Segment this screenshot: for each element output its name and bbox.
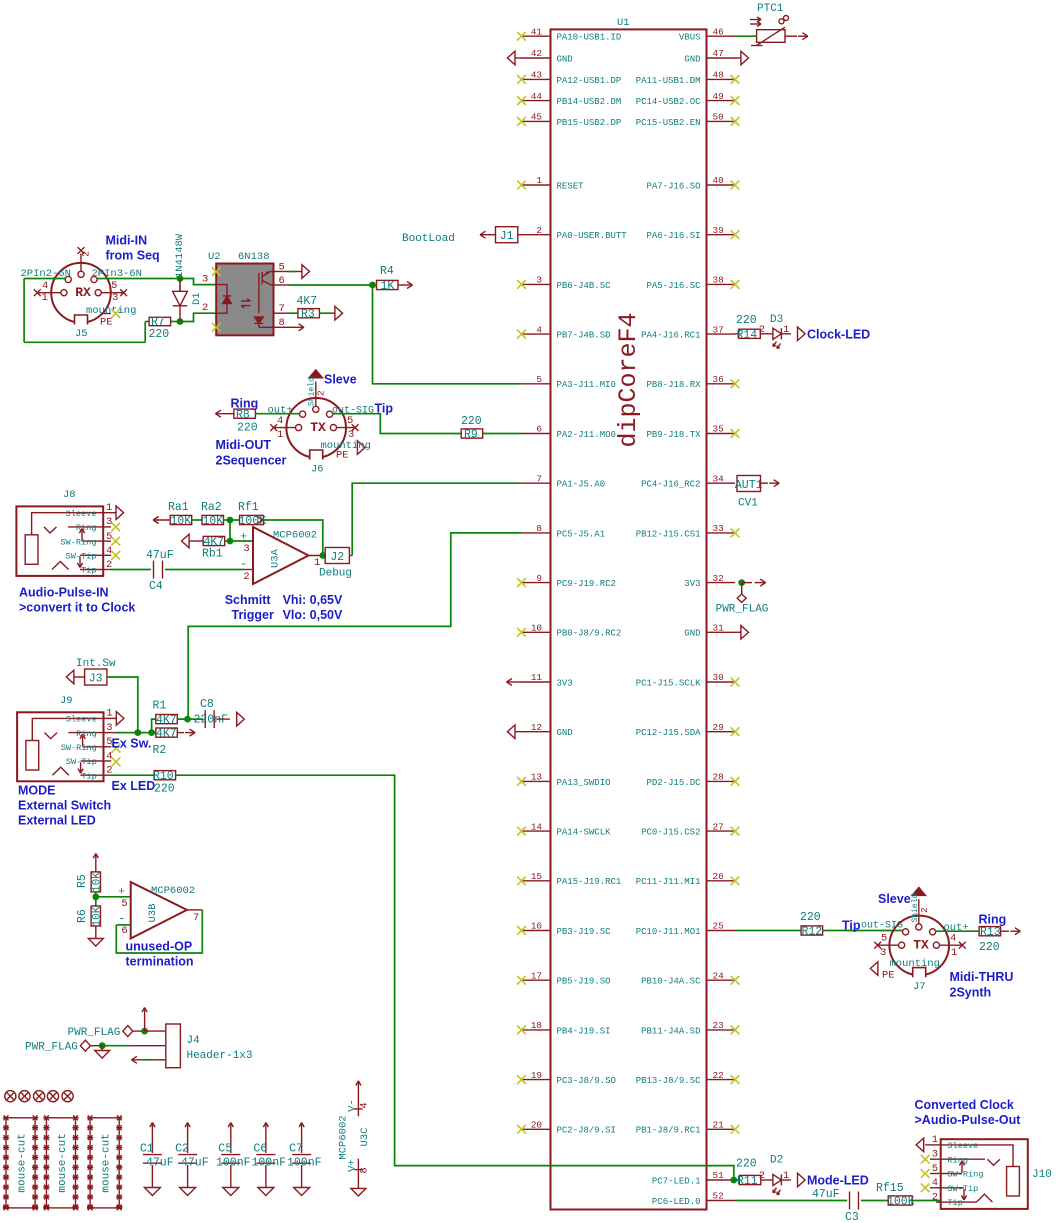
- svg-text:PC7-LED.1: PC7-LED.1: [652, 1176, 701, 1186]
- wire J1 to U1 pin2: [518, 234, 522, 236]
- svg-text:PWR_FLAG: PWR_FLAG: [68, 1027, 121, 1039]
- U1 pin 5 PA3-J11.MI0: [522, 383, 551, 385]
- ground below R6: [95, 926, 97, 939]
- svg-text:mounting: mounting: [890, 958, 940, 970]
- connector J8 jack Audio-Pulse-IN: [16, 506, 103, 576]
- svg-text:PA10-USB1.ID: PA10-USB1.ID: [557, 33, 622, 43]
- svg-text:Tip: Tip: [842, 919, 861, 933]
- junction U1 pin32 3V3: [738, 579, 745, 586]
- svg-text:dipCoreF4: dipCoreF4: [614, 312, 643, 447]
- resistor R4 1K: [377, 280, 399, 289]
- svg-text:20: 20: [531, 1120, 542, 1131]
- svg-text:Ra1: Ra1: [168, 501, 189, 514]
- U1 pin 4 PB7-J4B.SD: [522, 333, 551, 335]
- svg-text:GND: GND: [684, 629, 700, 639]
- svg-text:Ring: Ring: [76, 729, 97, 739]
- J9 pin 5: [104, 746, 112, 748]
- svg-text:Ra2: Ra2: [201, 501, 222, 514]
- svg-text:PC2-J8/9.SI: PC2-J8/9.SI: [557, 1126, 616, 1136]
- port arrow Mode-LED: [798, 1173, 806, 1187]
- J9 pin 1: [104, 717, 117, 719]
- svg-text:48: 48: [713, 70, 724, 81]
- svg-text:1: 1: [106, 502, 112, 514]
- svg-text:External Switch: External Switch: [18, 799, 111, 813]
- wire J8 pin2 to C4: [110, 569, 151, 571]
- svg-text:13: 13: [531, 772, 542, 783]
- svg-text:PA12-USB1.DP: PA12-USB1.DP: [557, 76, 622, 86]
- svg-text:PB11-J4A.SD: PB11-J4A.SD: [641, 1026, 700, 1036]
- connector J3: [85, 669, 107, 685]
- svg-text:PC0-J15.CS2: PC0-J15.CS2: [641, 828, 700, 838]
- wire node to U3B plus: [96, 896, 131, 898]
- svg-text:>Audio-Pulse-Out: >Audio-Pulse-Out: [915, 1113, 1022, 1127]
- power flag J4 pin2: [80, 1040, 90, 1051]
- wire up to R7: [144, 322, 146, 343]
- J8 pin 1: [103, 512, 116, 514]
- mounting holes crossed circles: [5, 1091, 16, 1102]
- svg-text:PA4-J16.RC1: PA4-J16.RC1: [641, 331, 700, 341]
- svg-text:PA7-J16.SO: PA7-J16.SO: [646, 181, 700, 191]
- svg-text:PC11-J11.MI1: PC11-J11.MI1: [636, 877, 701, 887]
- svg-text:MODE: MODE: [18, 784, 56, 798]
- svg-text:PB14-USB2.DM: PB14-USB2.DM: [557, 97, 622, 107]
- svg-text:22: 22: [713, 1070, 724, 1081]
- port arrow J7 PE: [870, 962, 878, 976]
- svg-text:2: 2: [759, 324, 765, 336]
- U2 pin 8: [274, 326, 289, 328]
- wire node to U2 pin2: [180, 313, 216, 321]
- junction R2 node: [148, 729, 155, 736]
- svg-text:U3C: U3C: [359, 1128, 371, 1147]
- ground below U3C: [351, 1188, 366, 1196]
- svg-text:PB15-USB2.DP: PB15-USB2.DP: [557, 118, 622, 128]
- svg-text:2: 2: [932, 1191, 938, 1203]
- capacitor C4 47uF: [153, 561, 155, 579]
- wire U2 pin7 to R3: [289, 312, 298, 314]
- power arrow above R5: [95, 862, 97, 872]
- svg-text:15: 15: [531, 871, 542, 882]
- svg-text:2Synth: 2Synth: [950, 986, 992, 1000]
- port arrow R8 left: [215, 413, 234, 415]
- svg-text:PC9-J19.RC2: PC9-J19.RC2: [557, 579, 616, 589]
- port arrow U2 pin8: [289, 326, 296, 328]
- connector AUT1 CV1: [737, 476, 761, 492]
- op-amp power pins U3C MCP6002: [357, 1081, 359, 1091]
- svg-text:Mode-LED: Mode-LED: [807, 1174, 869, 1188]
- op-amp U3B MCP6002: [131, 882, 187, 939]
- svg-text:3: 3: [106, 722, 112, 734]
- svg-text:5: 5: [881, 933, 887, 945]
- svg-text:3: 3: [536, 275, 542, 286]
- svg-text:J5: J5: [75, 328, 88, 340]
- no-connect PE J5: [111, 309, 120, 318]
- junction U3A output: [319, 552, 326, 559]
- svg-text:External LED: External LED: [18, 814, 96, 828]
- wire R1 to C8 node: [177, 718, 203, 720]
- svg-text:4: 4: [42, 280, 48, 292]
- svg-text:R2: R2: [153, 744, 167, 757]
- svg-text:J4: J4: [187, 1035, 201, 1047]
- wire Ra1 to Ra2: [192, 519, 202, 521]
- svg-text:TX: TX: [310, 420, 326, 435]
- svg-text:7: 7: [279, 303, 285, 315]
- wire R4 node down to U1 pin5: [373, 285, 522, 384]
- svg-text:Vhi: 0,65V: Vhi: 0,65V: [283, 593, 343, 607]
- wire bottom run to R7: [24, 341, 145, 343]
- svg-text:R14: R14: [737, 329, 758, 342]
- svg-text:PA2-J11.MO0: PA2-J11.MO0: [557, 430, 616, 440]
- svg-text:out+: out+: [268, 405, 293, 417]
- svg-text:49: 49: [713, 91, 724, 102]
- wire U1 pin52 to C3: [735, 1200, 847, 1202]
- svg-text:8: 8: [536, 523, 542, 534]
- svg-text:220: 220: [800, 911, 821, 924]
- svg-text:100K: 100K: [887, 1196, 915, 1209]
- port arrow C8 right: [217, 718, 230, 720]
- resistor Rf15 100K: [888, 1196, 912, 1205]
- svg-text:+: +: [240, 532, 247, 544]
- connector J1: [496, 227, 518, 243]
- svg-text:4: 4: [536, 324, 542, 335]
- svg-text:PE: PE: [336, 450, 349, 462]
- svg-text:31: 31: [713, 623, 725, 634]
- svg-text:6: 6: [536, 424, 542, 435]
- svg-text:PE: PE: [882, 970, 895, 982]
- port arrow PTC1 right: [785, 35, 797, 37]
- svg-text:C1: C1: [140, 1143, 154, 1156]
- svg-text:R12: R12: [802, 926, 823, 939]
- svg-text:C8: C8: [200, 698, 214, 711]
- svg-text:SW-Tip: SW-Tip: [66, 757, 97, 767]
- svg-text:PWR_FLAG: PWR_FLAG: [25, 1042, 78, 1054]
- svg-text:Tip: Tip: [947, 1198, 962, 1208]
- U1 pin 38 PA5-J16.SC: [707, 283, 736, 285]
- svg-text:8: 8: [359, 1167, 371, 1173]
- svg-text:SW-Tip: SW-Tip: [947, 1184, 978, 1194]
- U1 pin 22 PB13-J8/9.SC: [707, 1079, 736, 1081]
- resistor R12 220: [801, 926, 823, 935]
- svg-text:12: 12: [531, 722, 542, 733]
- port arrow R4 right: [398, 284, 404, 286]
- wire C4 to U3A minus input: [165, 569, 244, 571]
- U2 pin 5: [274, 271, 289, 273]
- connector J2 Debug: [325, 548, 349, 564]
- wire node up to R1: [152, 719, 156, 733]
- svg-text:4: 4: [932, 1177, 938, 1189]
- U1 pin 21 PB1-J8/9.RC1: [707, 1128, 736, 1130]
- svg-text:5: 5: [279, 262, 285, 274]
- svg-text:220: 220: [979, 941, 1000, 954]
- J9 pin 4: [104, 760, 112, 762]
- svg-text:PB1-J8/9.RC1: PB1-J8/9.RC1: [636, 1126, 701, 1136]
- svg-text:J1: J1: [500, 230, 514, 243]
- svg-text:PC12-J15.SDA: PC12-J15.SDA: [636, 728, 701, 738]
- J8 pin 3: [103, 526, 111, 528]
- U1 pin 6 PA2-J11.MO0: [522, 433, 551, 435]
- svg-text:TX: TX: [913, 938, 929, 953]
- svg-text:J8: J8: [63, 489, 76, 501]
- port arrow R3 right: [319, 312, 332, 314]
- wire J3 to R2 node: [107, 677, 138, 733]
- junction J4 pin1: [141, 1028, 148, 1035]
- optocoupler U2 6N138: [216, 264, 273, 336]
- J8 pin 5: [103, 540, 111, 542]
- svg-text:3: 3: [932, 1149, 938, 1161]
- wire C3 to Rf15: [861, 1200, 888, 1202]
- svg-text:2: 2: [202, 302, 208, 314]
- svg-text:J6: J6: [311, 464, 324, 476]
- resistor R14 220: [735, 333, 739, 335]
- junction D1 top: [177, 275, 184, 282]
- svg-text:2: 2: [759, 1170, 765, 1182]
- U1 pin 39 PA6-J16.SI: [707, 234, 736, 236]
- U1 pin 3 PB6-J4B.SC: [522, 283, 551, 285]
- svg-text:6: 6: [121, 925, 127, 937]
- capacitor C7 100nF: [301, 1134, 303, 1153]
- svg-text:4: 4: [950, 933, 956, 945]
- port arrow 3V3 right: [742, 582, 752, 584]
- resistor R2 4K7: [152, 732, 156, 734]
- wire J4 pin2: [102, 1045, 130, 1047]
- svg-text:1: 1: [536, 175, 542, 186]
- J10 pin 3: [930, 1158, 941, 1160]
- connector J7 MIDI-THRU DIN socket TX: [889, 916, 949, 976]
- U1 pin 31 GND: [707, 631, 736, 633]
- svg-text:30: 30: [713, 672, 724, 683]
- svg-text:Ex LED: Ex LED: [112, 779, 156, 793]
- U1 pin 52 PC6-LED.0: [707, 1200, 736, 1202]
- svg-text:R8: R8: [236, 409, 250, 422]
- svg-text:42: 42: [531, 48, 542, 59]
- U1 pin 35 PB9-J18.TX: [707, 433, 736, 435]
- svg-text:PB13-J8/9.SC: PB13-J8/9.SC: [636, 1076, 701, 1086]
- svg-text:C2: C2: [175, 1143, 189, 1156]
- svg-text:29: 29: [713, 722, 724, 733]
- svg-text:out+: out+: [944, 922, 969, 934]
- svg-text:47uF: 47uF: [146, 1157, 174, 1170]
- wire node vertical: [229, 520, 231, 541]
- svg-text:2: 2: [536, 225, 542, 236]
- junction U1 pin51 node: [730, 1177, 737, 1184]
- svg-text:1: 1: [106, 708, 112, 720]
- svg-text:10K: 10K: [171, 515, 192, 528]
- resistor R13 220: [979, 927, 1001, 936]
- J10 pin 5: [930, 1173, 941, 1175]
- svg-text:termination: termination: [126, 955, 194, 969]
- wire feedback loop: [264, 520, 323, 556]
- J10 pin 4: [930, 1187, 941, 1189]
- wire J6 pin5 to R9: [333, 414, 461, 434]
- J10 pin 2: [936, 1201, 941, 1203]
- svg-text:38: 38: [713, 275, 724, 286]
- resistor R11 220: [734, 1179, 740, 1181]
- svg-text:PA6-J16.SI: PA6-J16.SI: [646, 231, 700, 241]
- op-amp U3A MCP6002: [253, 527, 309, 584]
- connector J6 MIDI-OUT DIN socket TX: [286, 398, 346, 458]
- svg-text:-: -: [118, 912, 125, 926]
- wire J2 to U1 pin7: [349, 555, 352, 557]
- svg-text:47uF: 47uF: [181, 1157, 209, 1170]
- junction R4 node: [369, 282, 376, 289]
- svg-text:Clock-LED: Clock-LED: [807, 328, 870, 342]
- svg-text:GND: GND: [684, 54, 700, 64]
- U1 pin 18 PB4-J19.SI: [522, 1029, 551, 1031]
- svg-text:2Sequencer: 2Sequencer: [216, 454, 287, 468]
- svg-text:100nF: 100nF: [216, 1157, 251, 1170]
- svg-text:Midi-OUT: Midi-OUT: [216, 438, 272, 452]
- svg-text:Rb1: Rb1: [202, 548, 223, 561]
- junction Ra2-Rf1 node: [227, 517, 234, 524]
- J9 pin 3: [104, 732, 117, 734]
- mouse-cut area 1: [6, 1118, 35, 1208]
- svg-text:Sleve: Sleve: [878, 892, 911, 906]
- svg-text:mouse-cut: mouse-cut: [17, 1133, 29, 1192]
- U1 pin 8 PC5-J5.A1: [522, 532, 551, 534]
- svg-text:2: 2: [919, 907, 930, 913]
- svg-text:Ex Sw.: Ex Sw.: [112, 737, 152, 751]
- svg-text:40: 40: [713, 175, 724, 186]
- svg-text:43: 43: [531, 70, 542, 81]
- svg-text:Sleeve: Sleeve: [947, 1141, 978, 1151]
- power flag J4 pin1: [123, 1026, 133, 1037]
- svg-text:R13: R13: [980, 926, 1001, 939]
- svg-text:44: 44: [531, 91, 543, 102]
- mouse-cut area 3: [90, 1118, 119, 1208]
- svg-text:14: 14: [531, 821, 543, 832]
- svg-text:32: 32: [713, 573, 724, 584]
- svg-text:PC10-J11.MO1: PC10-J11.MO1: [636, 927, 701, 937]
- svg-text:Header-1x3: Header-1x3: [187, 1050, 253, 1062]
- svg-text:mounting: mounting: [86, 305, 136, 317]
- svg-text:16: 16: [531, 921, 542, 932]
- svg-text:PB8-J18.RX: PB8-J18.RX: [646, 380, 701, 390]
- U1 pin 1 RESET: [522, 184, 551, 186]
- svg-text:7: 7: [193, 912, 199, 924]
- port arrow J3 left: [66, 670, 74, 684]
- resistor Ra1 10K: [169, 519, 170, 521]
- svg-text:J2: J2: [330, 551, 344, 564]
- svg-text:Int.Sw: Int.Sw: [76, 658, 116, 670]
- resistor R7 220: [149, 317, 171, 325]
- svg-text:PA1-J5.A0: PA1-J5.A0: [557, 480, 606, 490]
- svg-text:unused-OP: unused-OP: [126, 940, 193, 954]
- svg-text:35: 35: [713, 424, 724, 435]
- svg-text:MCP6002: MCP6002: [151, 885, 195, 897]
- svg-text:PC5-J5.A1: PC5-J5.A1: [557, 529, 606, 539]
- svg-text:PE: PE: [100, 317, 113, 329]
- U1 pin 40 PA7-J16.SO: [707, 184, 736, 186]
- svg-text:47uF: 47uF: [146, 549, 174, 562]
- resistor R10 220: [154, 771, 176, 780]
- svg-text:C6: C6: [253, 1143, 267, 1156]
- svg-text:45: 45: [531, 112, 542, 123]
- svg-text:5: 5: [121, 898, 127, 910]
- svg-text:27: 27: [713, 821, 724, 832]
- diode D1 1N4148W: [179, 279, 181, 292]
- svg-text:SW-Ring: SW-Ring: [60, 537, 96, 547]
- U1 pin 19 PC3-J8/9.SO: [522, 1079, 551, 1081]
- mouse-cut area 2: [46, 1118, 75, 1208]
- svg-text:3: 3: [112, 292, 118, 304]
- svg-text:Ring: Ring: [979, 913, 1007, 927]
- svg-text:R9: R9: [464, 429, 478, 442]
- svg-text:J7: J7: [913, 981, 926, 993]
- svg-text:220: 220: [461, 415, 482, 428]
- svg-text:220nF: 220nF: [194, 714, 229, 727]
- junction D1 bottom: [177, 318, 184, 325]
- svg-text:SW-Ring: SW-Ring: [61, 743, 97, 753]
- svg-text:4: 4: [277, 415, 283, 427]
- wire U2 pin6 to R4 node: [289, 284, 373, 286]
- svg-text:J10: J10: [1032, 1169, 1052, 1181]
- wire Ra2 to node: [224, 519, 231, 521]
- port arrow U2 pin5: [289, 271, 297, 273]
- svg-text:BootLoad: BootLoad: [402, 233, 455, 245]
- svg-text:3: 3: [243, 543, 249, 555]
- svg-text:PB6-J4B.SC: PB6-J4B.SC: [557, 281, 612, 291]
- svg-text:1K: 1K: [381, 280, 395, 293]
- U1 pin 42 GND: [522, 57, 551, 59]
- svg-text:5: 5: [932, 1163, 938, 1175]
- svg-text:3V3: 3V3: [684, 579, 700, 589]
- svg-text:J3: J3: [89, 673, 103, 686]
- svg-text:6: 6: [279, 275, 285, 287]
- svg-text:R11: R11: [737, 1175, 758, 1188]
- svg-text:VBUS: VBUS: [679, 33, 701, 43]
- svg-text:PWR_FLAG: PWR_FLAG: [716, 604, 769, 616]
- connector J5 MIDI-IN DIN socket RX: [51, 263, 111, 323]
- svg-text:Rf15: Rf15: [876, 1182, 904, 1195]
- U3B output pin 7: [187, 909, 202, 911]
- svg-text:3: 3: [202, 274, 208, 286]
- svg-text:3: 3: [106, 516, 112, 528]
- svg-text:Sleve: Sleve: [324, 373, 357, 387]
- svg-text:220: 220: [736, 314, 757, 327]
- svg-text:>convert it to Clock: >convert it to Clock: [19, 601, 135, 615]
- svg-text:4: 4: [106, 750, 112, 762]
- svg-text:CV1: CV1: [738, 498, 758, 510]
- capacitor C1 47uF: [151, 1134, 153, 1153]
- svg-text:PC4-J16_RC2: PC4-J16_RC2: [641, 480, 700, 490]
- junction plus input node: [227, 538, 234, 545]
- U1 pin 23 PB11-J4A.SD: [707, 1029, 736, 1031]
- svg-text:39: 39: [713, 225, 724, 236]
- svg-text:1: 1: [42, 292, 48, 304]
- U1 pin 49 PC14-USB2.OC: [707, 100, 736, 102]
- resistor Ra2 10K: [202, 515, 224, 524]
- svg-text:PA0-USER.BUTT: PA0-USER.BUTT: [557, 231, 628, 241]
- svg-text:4K7: 4K7: [156, 728, 177, 741]
- svg-text:PB10-J4A.SC: PB10-J4A.SC: [641, 977, 701, 987]
- wire J6 pin4 to R8: [255, 413, 299, 415]
- wire J4 pin1: [145, 1030, 166, 1032]
- svg-text:R3: R3: [301, 308, 315, 321]
- resistor Rb1 4K7: [203, 536, 225, 545]
- svg-text:34: 34: [713, 473, 725, 484]
- svg-text:+: +: [118, 887, 125, 899]
- wire R10 to Mode-LED node: [176, 775, 734, 1180]
- port arrow R13 right: [1001, 930, 1009, 932]
- capacitor C6 100nF: [265, 1134, 267, 1153]
- U2 pin 7: [274, 312, 289, 314]
- svg-text:10K: 10K: [92, 872, 104, 892]
- svg-text:100nF: 100nF: [287, 1157, 322, 1170]
- svg-text:PC3-J8/9.SO: PC3-J8/9.SO: [557, 1076, 616, 1086]
- svg-text:1: 1: [277, 429, 283, 441]
- svg-text:R1: R1: [153, 700, 167, 713]
- svg-text:PB12-J15.CS1: PB12-J15.CS1: [636, 529, 701, 539]
- svg-text:MCP6002: MCP6002: [273, 530, 317, 542]
